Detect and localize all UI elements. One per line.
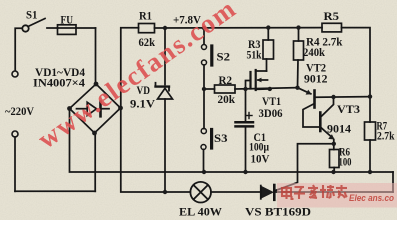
- svg-text:100: 100: [339, 157, 352, 169]
- svg-text:S1: S1: [26, 10, 38, 22]
- svg-text:FU: FU: [61, 15, 74, 27]
- svg-text:10V: 10V: [251, 154, 271, 166]
- svg-text:S2: S2: [217, 52, 231, 64]
- svg-text:3D06: 3D06: [259, 108, 283, 120]
- svg-text:20k: 20k: [218, 94, 236, 106]
- svg-text:EL 40W: EL 40W: [179, 207, 223, 219]
- svg-text:R2: R2: [219, 75, 233, 87]
- svg-text:~220V: ~220V: [5, 106, 35, 118]
- svg-text:VT3: VT3: [337, 104, 360, 116]
- svg-text:9014: 9014: [327, 124, 351, 136]
- svg-text:VT1: VT1: [262, 96, 281, 108]
- svg-text:R1: R1: [139, 11, 152, 23]
- svg-text:R5: R5: [324, 11, 340, 23]
- svg-text:2.7k: 2.7k: [377, 131, 395, 143]
- svg-text:100μ: 100μ: [249, 142, 269, 154]
- svg-text:240k: 240k: [303, 47, 326, 59]
- svg-text:IN4007×4: IN4007×4: [33, 78, 85, 90]
- svg-text:9.1V: 9.1V: [130, 99, 156, 111]
- svg-text:51k: 51k: [247, 50, 262, 62]
- svg-text:9012: 9012: [304, 74, 328, 86]
- svg-text:VS BT169D: VS BT169D: [245, 207, 311, 219]
- svg-text:Elec ans.co: Elec ans.co: [349, 193, 394, 203]
- svg-text:S3: S3: [214, 133, 228, 145]
